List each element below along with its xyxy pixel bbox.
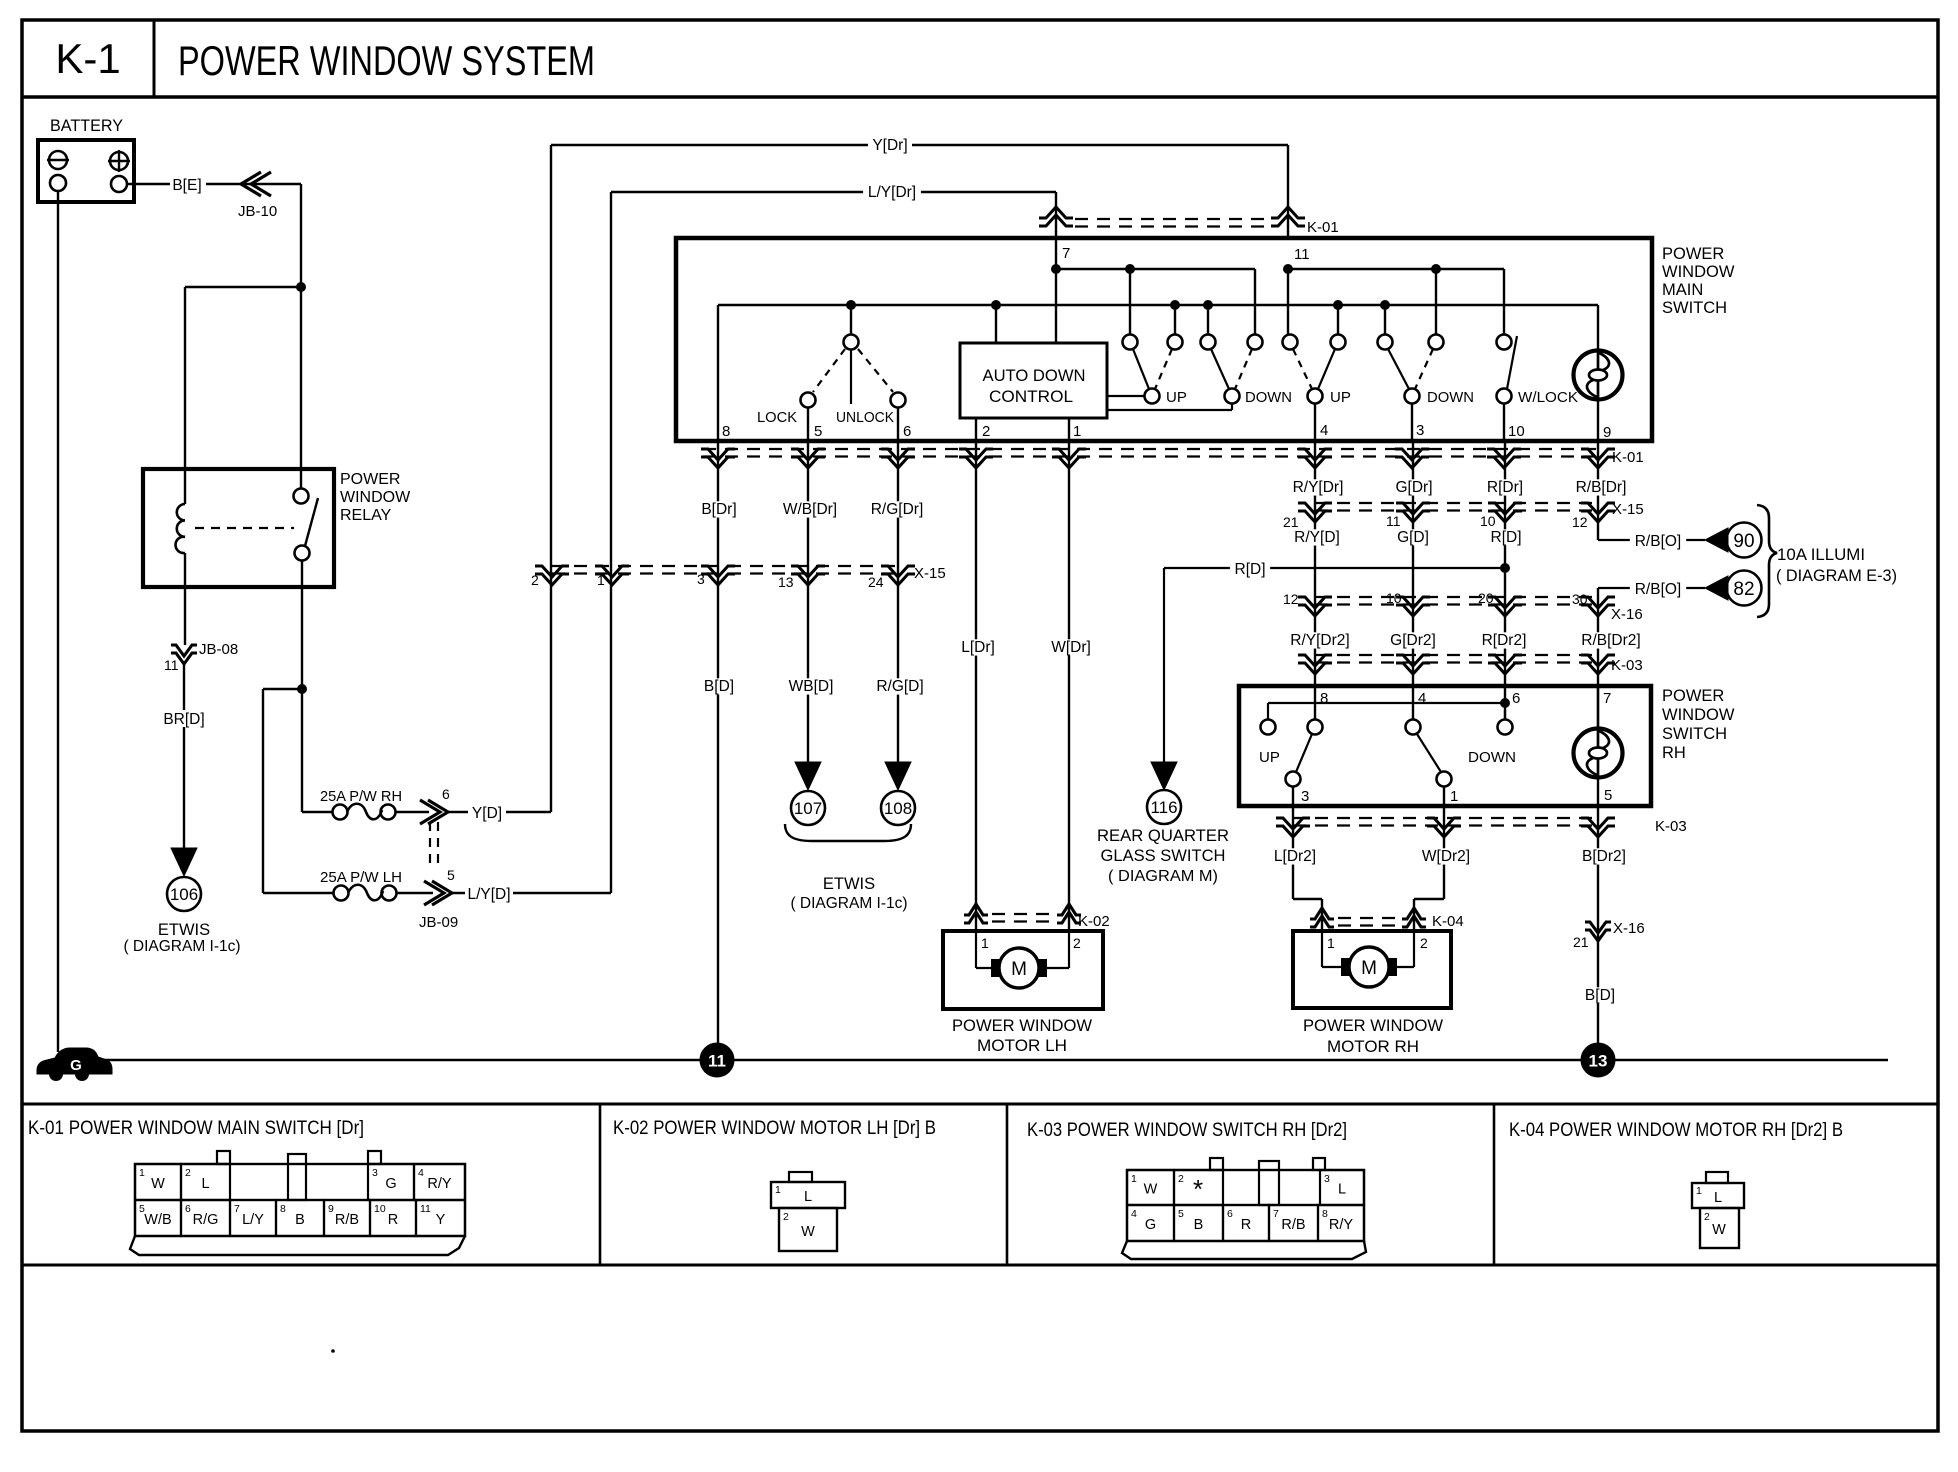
wire label G[Dr2] [1385, 632, 1441, 648]
wire R[Dr] [1481, 441, 1529, 719]
svg-text:30: 30 [1572, 591, 1588, 607]
svg-text:L: L [1714, 1190, 1722, 1206]
wire fuse RH to JB-09 [396, 811, 429, 813]
svg-text:9: 9 [1603, 424, 1611, 441]
svg-text:R/G[Dr]: R/G[Dr] [871, 501, 924, 518]
wire R/Y[Dr] [1286, 441, 1350, 719]
svg-text:5: 5 [1604, 787, 1612, 804]
svg-text:6: 6 [185, 1203, 191, 1215]
svg-text:R/B[O]: R/B[O] [1635, 533, 1682, 550]
svg-text:G: G [385, 1176, 396, 1192]
power window switch RH box [1239, 686, 1651, 806]
svg-text:7: 7 [1062, 245, 1070, 262]
svg-text:G[Dr2]: G[Dr2] [1390, 632, 1436, 649]
svg-text:R: R [1241, 1217, 1251, 1233]
wire battery negative to ground [57, 191, 59, 1052]
connector JB-09 pin 6 [420, 786, 450, 824]
stub to contact [1129, 269, 1131, 335]
wire label WB[D] [787, 678, 835, 694]
svg-text:8: 8 [280, 1203, 286, 1215]
svg-text:13: 13 [778, 574, 794, 590]
connector JB-09 pin 5 [419, 867, 458, 931]
svg-text:2: 2 [783, 1211, 789, 1223]
svg-text:4: 4 [1131, 1208, 1137, 1220]
svg-text:R/Y[D]: R/Y[D] [1294, 529, 1340, 546]
svg-text:UP: UP [1330, 389, 1351, 406]
svg-text:LOCK: LOCK [757, 409, 797, 426]
svg-text:( DIAGRAM I-1c): ( DIAGRAM I-1c) [123, 938, 240, 955]
svg-text:POWER: POWER [1662, 245, 1724, 263]
legend grid [22, 1104, 1938, 1265]
wire label R/G[D] [872, 678, 928, 694]
wire relay output [302, 560, 333, 812]
svg-text:10A ILLUMI: 10A ILLUMI [1777, 546, 1865, 564]
wire lock pin5 [807, 408, 809, 441]
wire R/B[O] from 82 [1598, 581, 1705, 598]
svg-text:2: 2 [1073, 935, 1081, 951]
power window main switch box [676, 238, 1652, 441]
svg-text:B[Dr2]: B[Dr2] [1582, 848, 1626, 865]
svg-text:X-16: X-16 [1611, 606, 1643, 623]
lamp RH [1505, 686, 1623, 807]
svg-text:DOWN: DOWN [1245, 389, 1292, 406]
svg-text:K-03 POWER WINDOW SWITCH RH [D: K-03 POWER WINDOW SWITCH RH [Dr2] [1027, 1119, 1347, 1141]
svg-text:90: 90 [1733, 531, 1754, 552]
wire pin10 [1503, 403, 1505, 441]
connector K-03 bottom row [1276, 818, 1687, 837]
svg-text:7: 7 [1603, 690, 1611, 707]
main switch label [1662, 245, 1735, 317]
switch RH DOWN [1406, 720, 1517, 787]
wire ADC pin2 [975, 418, 977, 441]
svg-text:POWER: POWER [340, 471, 400, 488]
connector X-16 row [1283, 590, 1643, 623]
wire pin1 RH [1443, 787, 1445, 807]
svg-text:W: W [1712, 1222, 1726, 1238]
svg-text:K-02 POWER WINDOW MOTOR LH [Dr: K-02 POWER WINDOW MOTOR LH [Dr] B [613, 1117, 936, 1139]
connector JB-08 [164, 641, 238, 673]
svg-text:R[D]: R[D] [1491, 529, 1522, 546]
svg-text:3: 3 [1416, 422, 1424, 439]
switch driver UP [1123, 335, 1187, 407]
connector K-01 top [1039, 207, 1339, 236]
switch RH label [1662, 687, 1735, 762]
power window motor RH box [1293, 931, 1451, 1008]
wire ADC to UP contact [1107, 395, 1144, 397]
connector K-03 pinout drawing [1122, 1158, 1366, 1259]
wire branch to LH fuse [263, 689, 334, 893]
svg-text:4: 4 [1418, 690, 1426, 707]
wire ADC pin1 [1068, 418, 1070, 441]
svg-text:R/Y[Dr]: R/Y[Dr] [1293, 479, 1344, 496]
junction [1431, 264, 1441, 274]
svg-text:1: 1 [139, 1167, 145, 1179]
svg-text:6: 6 [442, 786, 450, 802]
wire L/Y[Dr] top run [611, 181, 1056, 201]
relay coil L1 [176, 504, 185, 587]
switch window lock [1497, 335, 1579, 407]
svg-text:3: 3 [1301, 788, 1309, 805]
svg-text:11: 11 [164, 657, 179, 673]
svg-text:RELAY: RELAY [340, 507, 392, 524]
svg-text:K-02: K-02 [1078, 913, 1110, 930]
svg-text:X-15: X-15 [914, 565, 946, 582]
svg-text:WINDOW: WINDOW [1662, 706, 1735, 724]
svg-text:6: 6 [1512, 690, 1520, 707]
svg-text:R: R [388, 1212, 398, 1228]
svg-text:3: 3 [697, 571, 705, 587]
svg-text:25A P/W RH: 25A P/W RH [320, 788, 402, 805]
svg-text:11: 11 [1386, 513, 1401, 529]
svg-text:L: L [804, 1189, 812, 1205]
svg-text:MOTOR LH: MOTOR LH [977, 1037, 1067, 1055]
svg-text:M: M [1361, 958, 1377, 979]
wire Y[Dr] top run [551, 134, 1288, 154]
connector K-04 [1310, 908, 1464, 930]
junction [846, 300, 856, 310]
svg-text:BATTERY: BATTERY [50, 116, 123, 135]
ground symbol G [37, 1048, 112, 1081]
fuse 25A P/W RH [320, 788, 402, 820]
svg-text:2: 2 [531, 572, 539, 588]
svg-text:BR[D]: BR[D] [163, 711, 204, 728]
svg-text:8: 8 [722, 423, 730, 440]
svg-text:( DIAGRAM M): ( DIAGRAM M) [1108, 868, 1218, 885]
wire pin7 drop [1055, 192, 1057, 343]
svg-text:Y[Dr]: Y[Dr] [872, 137, 907, 154]
svg-text:WINDOW: WINDOW [340, 489, 411, 506]
relay contact switch [195, 489, 318, 561]
svg-text:5: 5 [447, 867, 455, 883]
svg-text:5: 5 [814, 423, 822, 440]
svg-text:21: 21 [1573, 934, 1589, 950]
svg-text:POWER: POWER [1662, 687, 1724, 705]
svg-text:B: B [295, 1212, 305, 1228]
junction [1203, 300, 1213, 310]
svg-text:AUTO DOWN: AUTO DOWN [983, 367, 1086, 385]
connector K-01 bottom row [701, 449, 1644, 468]
svg-text:1: 1 [1696, 1185, 1702, 1197]
wire W[Dr2] [1414, 807, 1474, 931]
svg-text:W/B[Dr]: W/B[Dr] [783, 501, 837, 518]
svg-text:R/B: R/B [335, 1212, 359, 1228]
svg-text:L/Y[D]: L/Y[D] [467, 886, 510, 903]
svg-text:GLASS SWITCH: GLASS SWITCH [1101, 847, 1226, 865]
svg-text:11: 11 [708, 1052, 726, 1071]
motor RH M2 [1322, 931, 1414, 967]
svg-text:10: 10 [1480, 513, 1496, 529]
svg-text:R/B[Dr2]: R/B[Dr2] [1581, 632, 1640, 649]
svg-text:W[Dr2]: W[Dr2] [1422, 848, 1470, 865]
svg-text:X-15: X-15 [1612, 501, 1644, 518]
node 108 [881, 791, 915, 825]
svg-text:X-16: X-16 [1613, 920, 1645, 937]
wire L[Dr] [954, 441, 1002, 931]
connector X-16 B wire [1573, 920, 1645, 950]
motor LH M1 [976, 931, 1069, 968]
svg-text:10: 10 [1386, 590, 1402, 606]
svg-text:M: M [1011, 959, 1027, 980]
connector K-02 [964, 904, 1110, 930]
power window relay box [143, 469, 334, 587]
wire pin3 RH [1292, 787, 1294, 807]
svg-text:WB[D]: WB[D] [789, 678, 834, 695]
svg-text:JB-10: JB-10 [238, 203, 277, 220]
svg-text:6: 6 [1227, 1208, 1233, 1220]
svg-text:8: 8 [1320, 690, 1328, 707]
svg-text:1: 1 [597, 572, 605, 588]
svg-text:24: 24 [868, 574, 884, 590]
svg-text:R[Dr2]: R[Dr2] [1482, 632, 1527, 649]
svg-text:JB-09: JB-09 [419, 914, 458, 931]
wire B[Dr2] [1576, 807, 1632, 1046]
svg-text:106: 106 [170, 885, 198, 904]
svg-text:K-01: K-01 [1307, 219, 1339, 236]
relay label [340, 471, 411, 524]
connector K-02 pinout drawing [771, 1172, 845, 1251]
jb-09 internal link [430, 822, 438, 868]
svg-text:R/G: R/G [193, 1212, 219, 1228]
svg-text:WINDOW: WINDOW [1662, 263, 1735, 281]
wire L[Dr2] [1267, 807, 1323, 931]
svg-text:6: 6 [903, 423, 911, 440]
svg-text:3: 3 [1324, 1173, 1330, 1185]
illumination lamp main switch [1574, 305, 1623, 441]
svg-text:L[Dr]: L[Dr] [961, 639, 995, 656]
svg-text:21: 21 [1283, 514, 1299, 530]
wire pin11 drop [1287, 145, 1289, 240]
svg-text:( DIAGRAM I-1c): ( DIAGRAM I-1c) [790, 895, 907, 912]
bus from pin 11 [1288, 269, 1504, 335]
wire R/G[Dr] [865, 441, 929, 762]
svg-text:CONTROL: CONTROL [989, 388, 1073, 406]
svg-text:25A P/W LH: 25A P/W LH [320, 869, 402, 886]
svg-text:10: 10 [374, 1203, 386, 1215]
switch RH UP [1259, 720, 1323, 787]
node 90 [1727, 523, 1762, 558]
junction [1170, 300, 1180, 310]
svg-text:R/G[D]: R/G[D] [876, 678, 923, 695]
fuse 25A P/W LH [320, 869, 402, 901]
connector X-15 right row [1283, 501, 1644, 530]
wire Y[Dr] riser [550, 145, 552, 812]
svg-text:RH: RH [1662, 744, 1686, 762]
wire battery feed down to relay [300, 184, 302, 489]
wire R/B[O] to 90 [1598, 533, 1705, 550]
junction [1051, 264, 1061, 274]
switch passenger UP [1283, 335, 1351, 407]
svg-text:1: 1 [775, 1184, 781, 1196]
junction node [296, 282, 306, 292]
switch driver DOWN [1201, 335, 1293, 407]
ground bus [88, 1059, 1888, 1062]
wire label G[D] [1393, 529, 1433, 545]
svg-text:K-03: K-03 [1611, 657, 1643, 674]
svg-text:R/Y[Dr2]: R/Y[Dr2] [1290, 632, 1349, 649]
svg-text:SWITCH: SWITCH [1662, 299, 1727, 317]
svg-text:L: L [201, 1176, 209, 1192]
wire fuse LH to JB-09 [397, 892, 433, 894]
svg-text:ETWIS: ETWIS [823, 875, 875, 893]
svg-text:1: 1 [1450, 788, 1458, 805]
svg-text:K-01: K-01 [1612, 449, 1644, 466]
lock/unlock switch [757, 305, 906, 426]
svg-text:107: 107 [794, 799, 822, 818]
svg-text:R/Y: R/Y [427, 1176, 452, 1192]
junction RH bus [1500, 698, 1510, 708]
svg-text:12: 12 [1572, 514, 1588, 530]
svg-text:L: L [1338, 1182, 1346, 1198]
svg-text:4: 4 [418, 1167, 424, 1179]
svg-text:L[Dr2]: L[Dr2] [1274, 848, 1316, 865]
supply bus pin 8 [718, 305, 1598, 441]
svg-text:W[Dr]: W[Dr] [1051, 639, 1091, 656]
RH interior bus [1268, 703, 1505, 719]
node 107 [791, 791, 825, 825]
svg-text:REAR QUARTER: REAR QUARTER [1097, 827, 1229, 845]
svg-text:82: 82 [1733, 579, 1754, 600]
svg-text:G[Dr]: G[Dr] [1395, 479, 1432, 496]
junction [1380, 300, 1390, 310]
svg-text:B[D]: B[D] [704, 678, 734, 695]
wire R/B[Dr] [1569, 441, 1633, 540]
svg-text:( DIAGRAM E-3): ( DIAGRAM E-3) [1776, 567, 1897, 585]
wire label R[Dr2] [1476, 632, 1532, 648]
svg-text:*: * [1193, 1174, 1203, 1204]
node 106 ETWIS [123, 877, 240, 955]
svg-text:R[D]: R[D] [1235, 561, 1266, 578]
svg-text:R/B[O]: R/B[O] [1635, 581, 1682, 598]
svg-text:1: 1 [981, 935, 989, 951]
wire pin4 [1314, 403, 1316, 441]
svg-text:2: 2 [185, 1167, 191, 1179]
svg-text:1: 1 [1327, 935, 1335, 951]
arrow to 107 [795, 762, 821, 790]
bus from pin 7 [1056, 269, 1255, 335]
connector K-01 pinout drawing [130, 1151, 465, 1255]
arrow to 116 [1151, 762, 1177, 790]
wire R/B[Dr2] [1575, 597, 1647, 728]
wire W/B[Dr] [778, 441, 842, 762]
motor RH label [1303, 1017, 1443, 1056]
node 116 rear quarter glass switch [1097, 790, 1229, 885]
svg-text:ETWIS: ETWIS [158, 921, 210, 939]
svg-text:W: W [1144, 1182, 1158, 1198]
svg-text:4: 4 [1320, 422, 1328, 439]
svg-text:W/LOCK: W/LOCK [1518, 389, 1578, 406]
svg-text:116: 116 [1150, 798, 1177, 817]
wire branch to relay coil [185, 287, 301, 504]
svg-text:B[D]: B[D] [1585, 987, 1615, 1004]
svg-text:MOTOR RH: MOTOR RH [1327, 1038, 1419, 1056]
svg-text:7: 7 [1273, 1208, 1279, 1220]
svg-text:POWER WINDOW: POWER WINDOW [952, 1017, 1092, 1035]
svg-text:DOWN: DOWN [1468, 749, 1516, 766]
connector K-04 pinout drawing [1692, 1172, 1744, 1248]
svg-text:MAIN: MAIN [1662, 281, 1703, 299]
svg-text:K-03: K-03 [1655, 818, 1687, 835]
wire unlock pin6 [897, 408, 899, 441]
svg-text:G: G [70, 1057, 82, 1074]
brace 10A ILLUMI [1757, 505, 1897, 617]
svg-text:8: 8 [1322, 1208, 1328, 1220]
svg-text:1: 1 [1073, 423, 1081, 440]
wire L/Y[Dr] riser [610, 192, 612, 893]
wire BR[D] [160, 665, 209, 850]
arrow to 90 [1705, 528, 1728, 552]
svg-text:POWER WINDOW: POWER WINDOW [1303, 1017, 1443, 1035]
svg-text:UP: UP [1259, 749, 1280, 766]
wire pin3 [1411, 403, 1413, 441]
svg-text:108: 108 [884, 799, 912, 818]
node 82 [1727, 571, 1762, 606]
wire label R/Y[Dr2] [1284, 632, 1356, 648]
svg-text:R/B[Dr]: R/B[Dr] [1576, 479, 1627, 496]
svg-text:7: 7 [234, 1203, 240, 1215]
wire label B[D] right [1580, 987, 1620, 1003]
svg-text:G[D]: G[D] [1397, 529, 1429, 546]
connector K-03 top row [1298, 655, 1643, 674]
junction node relay output [297, 684, 307, 694]
svg-text:10: 10 [1508, 423, 1525, 440]
svg-text:1: 1 [1131, 1173, 1137, 1185]
power window motor LH box [943, 931, 1103, 1009]
svg-text:R[Dr]: R[Dr] [1487, 479, 1523, 496]
wire label R[D] [1486, 529, 1526, 545]
wire B[Dr] [695, 441, 743, 1044]
svg-text:G: G [1145, 1217, 1156, 1233]
svg-text:W: W [801, 1224, 815, 1240]
svg-text:B: B [1194, 1217, 1204, 1233]
svg-text:R/B: R/B [1281, 1217, 1305, 1233]
svg-text:K-04 POWER WINDOW MOTOR RH [Dr: K-04 POWER WINDOW MOTOR RH [Dr2] B [1509, 1119, 1843, 1141]
svg-text:JB-08: JB-08 [199, 641, 238, 658]
wire L/Y[D] [452, 884, 611, 903]
junction [1333, 300, 1343, 310]
wire B[E] battery to JB-10 [127, 174, 301, 194]
switch passenger DOWN [1378, 335, 1475, 407]
wire label R/Y[D] [1289, 529, 1345, 545]
svg-text:B[Dr]: B[Dr] [701, 501, 736, 518]
junction [1125, 264, 1135, 274]
svg-text:2: 2 [1704, 1211, 1710, 1223]
arrow to 82 [1705, 576, 1728, 600]
svg-text:L/Y[Dr]: L/Y[Dr] [868, 184, 916, 201]
wire R[D] to rear quarter glass switch [1164, 561, 1505, 765]
stub to contact [1435, 269, 1437, 335]
ETWIS brace and label [785, 824, 911, 912]
svg-text:L/Y: L/Y [242, 1212, 264, 1228]
svg-text:13: 13 [1589, 1052, 1608, 1071]
svg-text:POWER WINDOW SYSTEM: POWER WINDOW SYSTEM [178, 37, 595, 84]
junction R[D] [1500, 563, 1510, 573]
contact stubs [996, 305, 1385, 343]
svg-text:Y: Y [436, 1212, 446, 1228]
battery [38, 140, 134, 202]
wire relay coil to JB-08 [184, 587, 186, 645]
svg-text:9: 9 [328, 1203, 334, 1215]
svg-text:DOWN: DOWN [1427, 389, 1474, 406]
svg-text:UNLOCK: UNLOCK [836, 409, 894, 426]
wire ADC to DOWN contact [1107, 404, 1232, 410]
svg-text:11: 11 [1294, 246, 1310, 263]
speck [331, 1349, 335, 1353]
wire W[Dr] [1047, 441, 1095, 931]
svg-text:K-01 POWER WINDOW MAIN SWITCH: K-01 POWER WINDOW MAIN SWITCH [Dr] [28, 1117, 364, 1139]
junction [1283, 264, 1293, 274]
connector JB-10 [238, 172, 277, 220]
svg-text:Y[D]: Y[D] [472, 805, 502, 822]
